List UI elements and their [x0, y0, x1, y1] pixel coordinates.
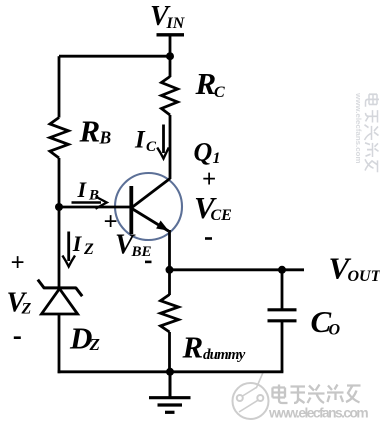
- node: top junction dot: [166, 52, 174, 60]
- transistor Q1 emitter arrowhead: [156, 221, 169, 231]
- label DZ: [69, 321, 100, 356]
- label VOUT: [329, 251, 380, 286]
- label minus VZ: [14, 336, 21, 339]
- resistor Rdummy: [161, 295, 179, 333]
- wire: VIN terminal bar: [157, 33, 185, 36]
- svg-text:www.elecfans.com: www.elecfans.com: [354, 92, 362, 164]
- ground: [149, 372, 191, 413]
- wire: VIN down to top node: [169, 35, 172, 58]
- node: base junction dot: [55, 203, 63, 211]
- wire: base lead: [59, 206, 131, 209]
- label VCE: [194, 190, 232, 225]
- svg-text:R: R: [79, 114, 101, 149]
- svg-text:OUT: OUT: [348, 268, 380, 285]
- svg-text:O: O: [329, 322, 341, 339]
- resistor RB: [50, 118, 69, 159]
- svg-text:Z: Z: [21, 301, 32, 318]
- wire: capacitor bottom lead: [281, 322, 284, 372]
- label Q1: [194, 138, 221, 168]
- wire: emitter down to output node: [168, 230, 171, 270]
- label minus VCE: [205, 237, 212, 240]
- node: capacitor junction dot: [278, 266, 286, 274]
- wire: RC to transistor collector: [169, 115, 172, 179]
- label VZ: [7, 288, 32, 319]
- label VIN: [150, 1, 186, 32]
- transistor Q1 emitter lead: [132, 209, 169, 232]
- label IB: [77, 177, 100, 204]
- watermark vertical right edge: [354, 92, 379, 172]
- current arrow IB: [72, 197, 107, 209]
- svg-text:+: +: [11, 250, 25, 277]
- svg-text:I: I: [72, 231, 83, 256]
- watermark chinese text bottom right: [273, 385, 361, 404]
- current arrow IC: [157, 125, 169, 159]
- svg-text:B: B: [88, 188, 99, 204]
- svg-text:R: R: [182, 330, 204, 365]
- capacitor CO top plate: [268, 308, 297, 311]
- label IZ: [72, 231, 94, 258]
- svg-text:Z: Z: [89, 335, 100, 354]
- transistor Q1 circle: [115, 173, 182, 240]
- node: ground junction dot: [166, 368, 174, 376]
- label Rdummy: [182, 330, 246, 365]
- svg-text:CE: CE: [211, 207, 232, 224]
- svg-text:B: B: [99, 128, 112, 148]
- zener diode DZ cathode bar: [38, 280, 82, 297]
- watermark logo bottom right: [233, 373, 269, 420]
- wire: collector from node to RC: [169, 56, 172, 77]
- label RC: [195, 66, 226, 101]
- svg-text:BE: BE: [131, 244, 152, 260]
- wire: zener to bottom rail: [58, 314, 61, 373]
- node: output junction dot: [166, 266, 174, 274]
- zener diode DZ triangle: [42, 289, 78, 314]
- wire: Rdummy to ground rail: [168, 332, 171, 373]
- svg-text:+: +: [202, 166, 216, 193]
- label minus VBE: [145, 261, 152, 264]
- svg-text:dummy: dummy: [203, 347, 246, 363]
- label IC: [134, 127, 157, 156]
- svg-text:IN: IN: [166, 15, 186, 32]
- transistor Q1 collector lead: [132, 179, 170, 208]
- wire: capacitor top lead: [281, 270, 284, 309]
- svg-text:I: I: [134, 127, 146, 154]
- svg-text:Z: Z: [83, 241, 94, 258]
- label RB: [79, 114, 112, 149]
- wire: top horizontal rail: [59, 55, 170, 58]
- current arrow IZ: [62, 232, 75, 267]
- wire: left rail lower (base node to zener): [58, 207, 61, 287]
- resistor RC: [161, 77, 177, 116]
- svg-text:I: I: [77, 177, 88, 202]
- transistor Q1 base bar: [129, 186, 133, 234]
- label VBE: [115, 230, 152, 261]
- svg-text:C: C: [214, 84, 225, 101]
- svg-text:C: C: [146, 139, 157, 155]
- wire: left rail upper: [58, 56, 61, 117]
- svg-text:www.elecfans.com: www.elecfans.com: [268, 406, 368, 421]
- capacitor CO bottom plate: [268, 319, 297, 322]
- label CO: [311, 304, 341, 339]
- wire: output node to Rdummy: [168, 270, 171, 295]
- svg-text:R: R: [195, 66, 217, 101]
- wire: output horizontal to VOUT: [170, 268, 305, 271]
- wire: left rail mid (RB to base node): [58, 158, 61, 207]
- svg-text:Q: Q: [194, 138, 213, 167]
- wire: bottom rail: [58, 370, 284, 373]
- svg-text:1: 1: [213, 150, 221, 167]
